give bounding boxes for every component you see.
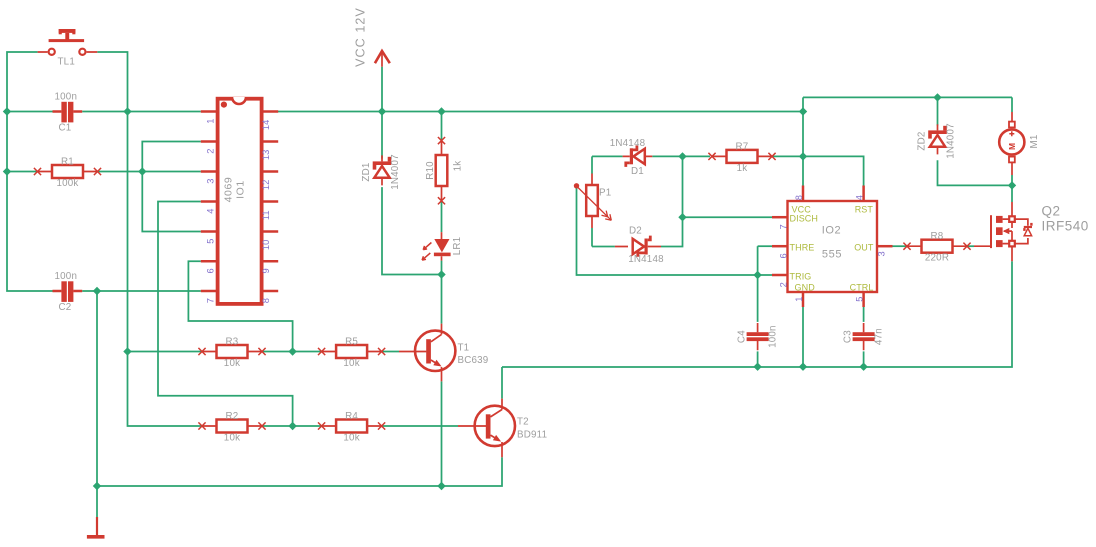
IO1 pin 1 [201,112,218,124]
op-amp U1 : IC IO1 4069 DIP-14 body [218,97,262,304]
IO1 pin 8 [261,291,278,303]
wire ZD1 bottom to LED node [382,187,442,274]
resistor R7 [708,141,775,174]
wire DISCH row [683,216,773,218]
ground [87,517,105,537]
node VCC / top bus [378,107,386,115]
node R10 / top bus [437,107,445,115]
wire CTRL to C3 [863,307,865,322]
wire THRE down to TRIG node [757,246,759,275]
op-amp U2 : 555 timer IO2 body [788,201,878,292]
IO1 pin 13 [261,142,278,161]
wire R7 to VCC column [771,155,803,157]
resistor R1 [34,157,101,190]
node x127 / R3 row [123,347,131,355]
wire R3-R5 row middle [262,351,323,353]
svg-text:T1: T1 [458,343,470,354]
svg-text:4: 4 [206,209,216,214]
wire VCC column to 555 pin8 [802,97,804,185]
svg-text:OUT: OUT [854,243,874,253]
svg-text:T2: T2 [517,417,529,428]
wire R3 row left [128,351,202,353]
wire OUT to R8 [893,245,908,247]
wire ZD2 top [937,97,939,125]
svg-text:11: 11 [261,210,271,220]
node R7 / VCC column [799,152,807,160]
svg-text:C4: C4 [736,330,747,343]
svg-text:555: 555 [822,249,842,261]
wire IO1 pin4 down to R2 row [158,202,293,427]
wire ground stem [96,486,98,517]
svg-text:220R: 220R [925,253,949,264]
IO2 pin 5 CTRL [850,283,874,308]
wire D2 right up to D1 node [661,156,683,246]
svg-text:10k: 10k [343,358,359,369]
wire top right rail [803,96,1012,98]
svg-text:DISCH: DISCH [790,214,819,224]
node TRIG / C4 [753,271,761,279]
svg-text:D2: D2 [629,226,642,237]
wire C2 row right to IO1 pin7 [82,290,201,292]
wire R1 row left [7,171,37,173]
wire node to R7 [683,155,711,157]
svg-text:8: 8 [794,195,804,200]
wire THRE stub [758,245,772,247]
wire C3 bottom [863,351,865,366]
LED LR1 [422,232,463,261]
node D1 / R7 [678,152,686,160]
resistor R8 [903,231,970,264]
capacitor C3 [842,323,884,350]
wire T1 emitter to ground row [441,381,443,486]
potentiometer P1 [574,174,612,229]
IO2 pin 4 RST [855,186,874,215]
node C3 / bottom bus [859,363,867,371]
svg-text:IRF540: IRF540 [1042,219,1089,234]
svg-text:1: 1 [206,119,216,124]
node DISCH [678,213,686,221]
node pin4 wire / R2 row [288,422,296,430]
svg-text:10k: 10k [224,433,240,444]
node pin6 wire / R3 row [288,347,296,355]
wire drain node down [1011,185,1013,202]
svg-text:THRE: THRE [790,243,815,253]
svg-text:TRIG: TRIG [790,272,812,282]
IO1 pin 12 [261,172,278,191]
wire R8 to Q2 gate [967,245,974,247]
wire R1 row right to IO1 pin3 [97,171,201,173]
svg-text:BC639: BC639 [458,355,489,366]
wire motor top [1011,97,1013,112]
svg-text:CTRL: CTRL [850,283,874,293]
transistor T1 BC639 [399,324,488,382]
svg-text:M: M [1007,143,1017,150]
transistor T2 BD911 [458,399,547,458]
IO1 pin 5 [201,232,218,244]
wire motor bottom [1011,175,1013,185]
wire D2 left [592,246,615,248]
svg-text:C2: C2 [59,302,72,313]
resistor R4 [318,411,385,444]
svg-text:ZD2: ZD2 [916,131,927,150]
svg-text:3: 3 [876,251,886,256]
wire LED to T1 collector [441,275,443,324]
capacitor C1 [53,92,83,134]
node TL1 / top bus [123,107,131,115]
svg-text:R3: R3 [226,337,239,348]
wire C4 top [757,275,759,322]
wire left rail TL1-left to C2-left [7,52,53,291]
svg-text:13: 13 [261,150,271,160]
node C2 / ground rail [93,287,101,295]
diode D1 1N4148 [610,138,653,177]
svg-text:1k: 1k [737,163,748,174]
svg-text:VCC 12V: VCC 12V [354,7,368,67]
IO2 pin 2 TRIG [772,272,811,288]
wire R5 to T1 base [382,351,399,353]
IO1 pin 4 [201,202,218,214]
svg-text:4069: 4069 [223,177,235,203]
wire LED cathode down [441,261,443,275]
wire P1 top [591,156,593,173]
wire 555 GND down [802,307,804,367]
wire ZD1 top [381,112,383,159]
svg-text:LR1: LR1 [452,237,463,256]
svg-text:5: 5 [855,297,865,302]
svg-text:P1: P1 [599,188,611,199]
svg-text:8: 8 [261,298,271,303]
resistor R2 [198,411,265,444]
svg-text:R1: R1 [61,157,74,168]
svg-text:BD911: BD911 [517,430,547,441]
svg-text:1: 1 [794,297,804,302]
svg-text:R8: R8 [931,231,944,242]
capacitor C2 [53,271,83,313]
wire VCC symbol down [381,67,383,112]
wire bottom bus to Q2 source [502,261,1012,367]
svg-text:100n: 100n [55,271,78,282]
svg-text:C1: C1 [59,123,72,134]
capacitor C4 [736,323,778,350]
wire C4 bottom [757,351,759,366]
svg-text:3: 3 [206,179,216,184]
svg-text:1k: 1k [452,161,463,172]
svg-text:ZD1: ZD1 [361,162,372,181]
wire T2 collector up [501,367,503,399]
IO2 pin 1 GND [794,283,815,308]
wire IO1 pin2 to pin5 [142,142,201,232]
wire P1 wiper to TRIG [577,188,773,275]
node left rail / C1 row [3,107,11,115]
svg-text:TL1: TL1 [58,57,75,68]
wire left column x127 to R2 row [128,112,202,427]
svg-text:Q2: Q2 [1042,204,1061,219]
IO2 pin 8 VCC [792,186,812,215]
svg-text:12: 12 [261,180,271,190]
diode D2 1N4148 [615,226,664,266]
svg-text:1N4007: 1N4007 [946,123,957,159]
IO2 pin 6 THRE [772,243,814,259]
svg-text:14: 14 [261,120,271,130]
IO1 pin 11 [261,202,278,221]
svg-text:10: 10 [261,240,271,250]
wire D1 left [592,155,623,157]
IO1 pin 2 [201,142,218,154]
wire ground rail vertical [96,291,98,486]
svg-text:GND: GND [795,283,816,293]
wire IO1 pin6 down to R3 row [188,261,292,351]
svg-text:R5: R5 [345,337,358,348]
node GND / bottom bus [799,363,807,371]
wire R10 top [441,112,443,141]
node ground [93,482,101,490]
transistor Q2 IRF540 MOSFET [974,202,1089,261]
resistor R10 [425,137,463,204]
svg-text:RST: RST [855,205,874,215]
svg-text:10k: 10k [224,358,240,369]
svg-text:2: 2 [779,282,789,287]
svg-text:2: 2 [206,149,216,154]
wire TL1 right to top bus [97,52,127,112]
IO1 pin 9 [261,261,278,273]
svg-text:R10: R10 [425,161,436,180]
wire C1 row right to IO1 pin1 [82,111,201,113]
svg-text:100n: 100n [55,92,78,103]
motor M1 [999,112,1040,175]
node LED / T1 collector [437,270,445,278]
svg-text:100k: 100k [56,178,78,189]
resistor R3 [198,337,265,370]
svg-text:IO2: IO2 [822,225,842,237]
zener diode ZD2 [916,123,956,159]
IO1 pin 3 [201,172,218,184]
svg-text:10k: 10k [343,433,359,444]
node top bus / VCC column [799,107,807,115]
svg-text:R2: R2 [226,411,239,422]
svg-text:C3: C3 [842,330,853,343]
svg-text:R7: R7 [736,141,749,152]
wire ZD2 bottom to drain node [938,160,1013,185]
wire R2-R4 row middle [262,425,323,427]
wire main top bus [276,111,804,113]
push button TL1 [38,29,98,68]
VCC 12V supply symbol [354,7,390,67]
zener diode ZD1 [361,154,401,190]
resistor R5 [318,337,385,370]
svg-text:7: 7 [779,224,789,229]
wire D1 right [652,155,682,157]
IO2 pin 7 DISCH [772,214,818,230]
svg-text:47n: 47n [874,328,885,345]
node R1 row / pin2-5 column [138,167,146,175]
IO1 pin 6 [201,261,218,273]
IO1 pin 7 [201,291,218,303]
node C4 / bottom bus [753,363,761,371]
IO1 pin 10 [261,232,278,251]
svg-text:4: 4 [855,195,865,200]
wire R4 to T2 base [382,425,458,427]
svg-text:IO1: IO1 [234,180,246,199]
svg-text:D1: D1 [631,166,644,177]
wire C1 row left [7,111,53,113]
svg-text:R4: R4 [345,411,358,422]
node ZD2 / top right rail [933,93,941,101]
wire RST branch [803,156,864,185]
wire P1 bottom [591,228,593,247]
svg-text:7: 7 [206,298,216,303]
node motor / drain [1008,181,1016,189]
svg-text:1N4007: 1N4007 [390,154,401,190]
svg-text:6: 6 [779,253,789,258]
svg-text:5: 5 [206,239,216,244]
wire ground row to T2 emitter [97,457,502,486]
svg-text:6: 6 [206,268,216,273]
svg-text:9: 9 [261,268,271,273]
svg-text:1N4148: 1N4148 [610,138,646,149]
svg-text:100n: 100n [768,325,779,348]
svg-text:M1: M1 [1029,134,1040,148]
IO2 pin 3 OUT [854,243,892,257]
wire R10 to LED [441,201,443,232]
node left rail / R1 row [3,167,11,175]
node T1 emitter / ground row [437,482,445,490]
IO1 pin 14 [261,112,278,131]
svg-text:1N4148: 1N4148 [628,254,664,265]
